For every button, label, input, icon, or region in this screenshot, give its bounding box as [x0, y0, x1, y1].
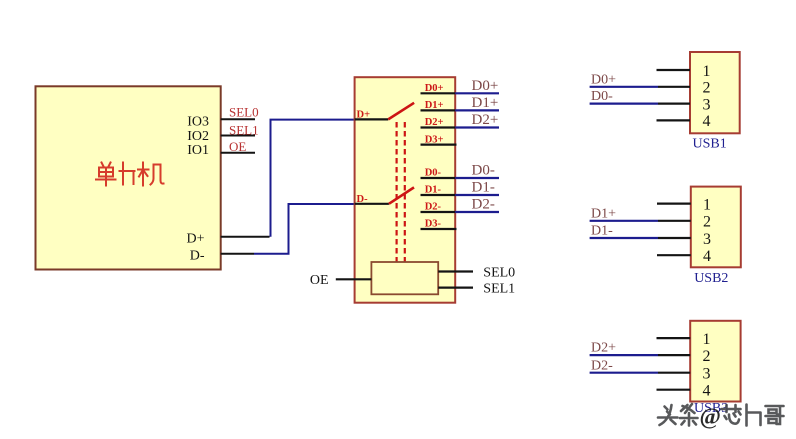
mux pin D1+ — [421, 100, 456, 111]
svg-text:D2-: D2- — [591, 358, 613, 373]
wire D2+ out — [455, 126, 499, 128]
svg-text:D-: D- — [190, 249, 205, 264]
svg-text:IO2: IO2 — [187, 129, 209, 144]
wire D+ navy run to mux — [271, 120, 355, 237]
wire stub IO2/SEL1 — [221, 135, 255, 137]
svg-text:D0-: D0- — [472, 162, 495, 178]
svg-text:D2-: D2- — [472, 197, 495, 213]
wire OE — [336, 278, 372, 280]
svg-text:D3+: D3+ — [425, 134, 444, 145]
svg-text:D1+: D1+ — [425, 100, 444, 111]
svg-text:2: 2 — [703, 80, 711, 97]
mux pin D3+ — [421, 134, 457, 145]
mux pin D0+ — [421, 83, 456, 94]
svg-text:D0+: D0+ — [472, 78, 499, 94]
svg-text:D0-: D0- — [591, 89, 613, 104]
wire D- stub black — [221, 253, 254, 255]
watermark glyph 芯 — [722, 405, 741, 424]
wire D1+ out — [455, 109, 499, 111]
mux pin D0- — [421, 168, 456, 179]
USB3 pin 4 stub — [657, 389, 691, 391]
mux pin D3- — [421, 219, 457, 230]
wire D0- to USB1 — [590, 102, 658, 104]
svg-text:2: 2 — [703, 214, 711, 231]
svg-text:D1-: D1- — [591, 224, 613, 239]
glyph 机 — [138, 163, 164, 186]
USB3 pin 2 stub — [658, 354, 690, 356]
watermark 头条@芯片哥 (hand-drawn glyphs) — [658, 404, 698, 426]
wire D0+ out — [455, 92, 499, 94]
USB1 pin 3 stub — [658, 102, 690, 104]
dashed control line right — [404, 122, 406, 262]
glyph 片 — [120, 163, 135, 185]
svg-text:4: 4 — [703, 113, 711, 130]
svg-text:D0+: D0+ — [591, 72, 616, 87]
svg-text:D0+: D0+ — [425, 83, 444, 94]
wire stub IO3/SEL0 — [221, 118, 255, 120]
mux pin D2+ — [421, 117, 456, 128]
svg-text:USB1: USB1 — [693, 136, 727, 151]
watermark glyph 头 — [658, 405, 678, 425]
svg-text:D1+: D1+ — [472, 95, 499, 111]
mux pin D1- — [421, 185, 456, 196]
wire D+ stub black — [221, 236, 270, 238]
wire D2+ to USB3 — [590, 354, 658, 356]
svg-text:1: 1 — [703, 63, 711, 80]
svg-text:D2+: D2+ — [425, 117, 444, 128]
svg-text:D2-: D2- — [425, 202, 442, 213]
mux pin D2- — [421, 202, 456, 213]
USB2 pin 2 stub — [658, 220, 691, 222]
USB2 pin 3 stub — [658, 237, 691, 239]
svg-text:D0-: D0- — [425, 168, 442, 179]
USB2 connector box — [691, 187, 741, 268]
svg-text:2: 2 — [703, 348, 711, 365]
svg-text:@: @ — [700, 404, 721, 430]
USB3 pin 3 stub — [658, 372, 690, 374]
wire D2- out — [455, 211, 499, 213]
svg-text:D-: D- — [357, 194, 369, 205]
wire D1- out — [455, 194, 499, 196]
mux pin D- — [355, 194, 389, 205]
svg-text:D3-: D3- — [425, 219, 442, 230]
switch blade upper — [388, 103, 414, 120]
svg-text:4: 4 — [703, 248, 711, 265]
USB1 pin 1 stub — [657, 69, 691, 71]
control block inside mux — [371, 262, 438, 294]
svg-text:D1+: D1+ — [591, 206, 616, 221]
svg-text:OE: OE — [229, 139, 246, 154]
USB1 pin 4 stub — [657, 119, 691, 121]
mux U2 box — [355, 77, 456, 303]
USB2 pin 4 stub — [657, 254, 691, 256]
svg-text:1: 1 — [703, 331, 711, 348]
watermark glyph 片 — [747, 405, 761, 426]
microcontroller U1 sheet box — [36, 86, 221, 269]
svg-text:D2+: D2+ — [591, 341, 616, 356]
svg-text:SEL1: SEL1 — [229, 122, 259, 137]
wire D1+ to USB2 — [590, 220, 658, 222]
microcontroller title 单片机 (hand-drawn glyphs) — [96, 163, 164, 186]
wire stub IO1/OE — [221, 152, 255, 154]
USB1 connector box — [690, 52, 740, 133]
dashed control line left — [396, 122, 398, 262]
svg-text:1: 1 — [703, 196, 711, 213]
wire SEL1 — [438, 287, 473, 289]
svg-text:OE: OE — [310, 273, 329, 288]
wire D0- out — [455, 177, 499, 179]
svg-text:D+: D+ — [357, 109, 371, 120]
switch blade lower — [389, 187, 414, 203]
svg-text:4: 4 — [703, 383, 711, 400]
svg-text:IO3: IO3 — [187, 115, 209, 130]
svg-text:3: 3 — [703, 96, 711, 113]
watermark glyph 条 — [680, 404, 698, 426]
wire SEL0 — [438, 270, 473, 272]
svg-text:USB2: USB2 — [694, 271, 728, 286]
svg-text:D+: D+ — [186, 231, 204, 246]
USB1 pin 2 stub — [658, 86, 690, 88]
USB3 pin 1 stub — [657, 337, 691, 339]
wire D0+ to USB1 — [590, 86, 658, 88]
svg-text:IO1: IO1 — [187, 143, 209, 158]
svg-text:SEL0: SEL0 — [229, 105, 259, 120]
svg-text:3: 3 — [703, 366, 711, 383]
USB2 pin 1 stub — [657, 203, 691, 205]
svg-text:D2+: D2+ — [472, 112, 499, 128]
wire D- navy run to mux — [254, 204, 355, 254]
svg-text:SEL0: SEL0 — [483, 265, 515, 280]
mux pin D+ — [355, 109, 389, 120]
glyph 单 — [96, 163, 116, 186]
svg-text:SEL1: SEL1 — [483, 281, 515, 296]
wire D1- to USB2 — [590, 237, 658, 239]
wire D2- to USB3 — [590, 372, 658, 374]
watermark glyph 哥 — [766, 406, 784, 424]
svg-text:D1-: D1- — [472, 180, 495, 196]
svg-text:D1-: D1- — [425, 185, 442, 196]
USB3 connector box — [690, 321, 740, 402]
svg-text:3: 3 — [703, 231, 711, 248]
